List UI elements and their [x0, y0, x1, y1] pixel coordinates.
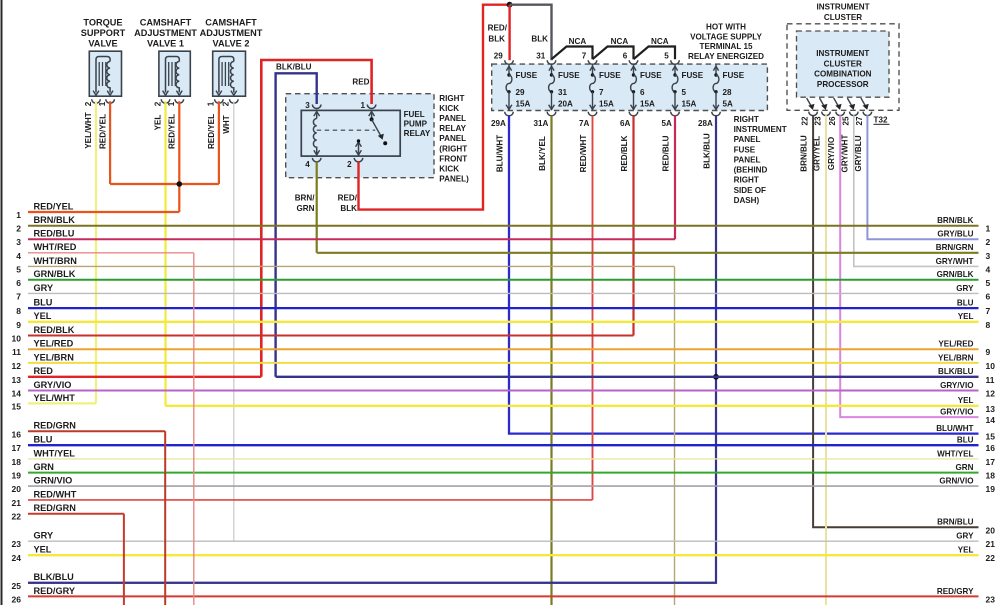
wire GRY/BLU from pin 27 down right to right row 2	[867, 115, 978, 239]
svg-text:YEL/RED: YEL/RED	[34, 339, 74, 349]
wire GRY/YEL from pin 23 down off bottom	[825, 115, 827, 605]
svg-text:6: 6	[16, 278, 21, 288]
svg-text:TERMINAL 15: TERMINAL 15	[700, 42, 753, 51]
wire row L12 YEL/BRN	[28, 362, 979, 364]
svg-text:FRONT: FRONT	[439, 154, 467, 163]
svg-text:YEL: YEL	[34, 545, 52, 555]
svg-text:PROCESSOR: PROCESSOR	[817, 80, 869, 89]
fuse F28 5A	[713, 65, 745, 111]
svg-text:6: 6	[986, 291, 991, 301]
svg-text:22: 22	[801, 116, 810, 126]
svg-text:RED/YEL: RED/YEL	[98, 114, 107, 149]
relay coil with arrows	[314, 111, 320, 116]
wire row L1 RED/YEL	[28, 211, 179, 213]
svg-text:5A: 5A	[661, 119, 672, 128]
svg-text:25: 25	[841, 116, 850, 126]
svg-text:(BEHIND: (BEHIND	[734, 166, 768, 175]
svg-text:1: 1	[16, 210, 21, 220]
svg-text:BRN/: BRN/	[295, 193, 316, 202]
svg-text:13: 13	[12, 375, 22, 385]
svg-text:18: 18	[12, 457, 22, 467]
svg-text:INSTRUMENT: INSTRUMENT	[734, 125, 787, 134]
fuse F31 20A	[549, 65, 581, 111]
svg-text:12: 12	[986, 389, 996, 399]
svg-text:10: 10	[12, 334, 22, 344]
svg-text:15A: 15A	[682, 100, 697, 109]
wire row L6 GRN/BLK	[28, 279, 979, 281]
svg-text:KICK: KICK	[439, 104, 459, 113]
wire row L5 WHT/BRN	[28, 265, 675, 267]
fuse panel bottom pin 28A connector	[712, 112, 721, 116]
svg-text:31: 31	[536, 52, 546, 61]
svg-text:GRN: GRN	[34, 462, 55, 472]
svg-text:BLU: BLU	[957, 436, 974, 445]
relay switch common from pin 1	[371, 111, 373, 119]
wire row L17 BLU	[28, 444, 979, 446]
wire RED/BLK from junction down to fuse 29 pin	[508, 5, 510, 61]
svg-text:NCA: NCA	[611, 37, 629, 46]
svg-text:9: 9	[986, 347, 991, 357]
svg-text:CAMSHAFT: CAMSHAFT	[205, 17, 257, 27]
svg-text:HOT WITH: HOT WITH	[706, 23, 746, 32]
fuse panel bottom pin 6A connector	[629, 112, 638, 116]
svg-text:BLK/BLU: BLK/BLU	[938, 367, 974, 376]
svg-text:GRN: GRN	[956, 463, 974, 472]
svg-text:7: 7	[16, 291, 21, 301]
svg-text:T32: T32	[874, 115, 888, 124]
svg-text:22: 22	[12, 512, 22, 522]
svg-text:26: 26	[828, 116, 837, 126]
svg-text:NCA: NCA	[569, 37, 587, 46]
cluster pin 27 connector	[863, 112, 872, 116]
svg-text:1: 1	[207, 101, 216, 106]
wire row R3 BRN/GRN	[317, 252, 979, 254]
svg-text:BLU: BLU	[957, 299, 974, 308]
cluster pin 26 connector	[836, 112, 845, 116]
svg-text:4: 4	[986, 264, 991, 274]
svg-text:VOLTAGE SUPPLY: VOLTAGE SUPPLY	[690, 32, 762, 41]
svg-text:23: 23	[12, 539, 22, 549]
svg-text:VALVE 1: VALVE 1	[147, 38, 184, 48]
svg-text:3: 3	[16, 237, 21, 247]
svg-text:YEL: YEL	[34, 311, 52, 321]
solenoid symbol	[219, 57, 234, 93]
svg-text:RELAY: RELAY	[439, 124, 466, 133]
svg-text:BLK/BLU: BLK/BLU	[34, 572, 75, 582]
wire row L8 BLU	[28, 307, 979, 309]
wire WHT/BRN continuation down from row 5	[674, 266, 676, 605]
svg-text:RED/YEL: RED/YEL	[207, 114, 216, 149]
svg-text:24: 24	[12, 553, 22, 563]
svg-text:YEL: YEL	[958, 396, 974, 405]
svg-text:CLUSTER: CLUSTER	[824, 13, 862, 22]
svg-text:(RIGHT: (RIGHT	[439, 144, 467, 153]
svg-text:GRY: GRY	[956, 532, 974, 541]
cluster pin 22 connector	[809, 112, 818, 116]
svg-text:7: 7	[599, 88, 604, 97]
valve pin connectors	[161, 99, 170, 103]
svg-text:SUPPORT: SUPPORT	[81, 28, 126, 38]
svg-text:2: 2	[222, 101, 231, 106]
fuse F7 15A	[590, 65, 622, 111]
wire BLK/BLU from fuse 28A down to row 25 with junction at row 11	[28, 115, 716, 582]
svg-text:4: 4	[16, 251, 21, 261]
svg-text:FUSE: FUSE	[558, 71, 580, 80]
svg-text:15A: 15A	[516, 100, 531, 109]
svg-text:BLU/WHT: BLU/WHT	[936, 424, 973, 433]
svg-text:17: 17	[986, 457, 996, 467]
svg-text:FUSE: FUSE	[516, 71, 538, 80]
svg-text:GRY/WHT: GRY/WHT	[936, 257, 974, 266]
fuse panel top pin 7 connector	[588, 60, 597, 64]
svg-text:ADJUSTMENT: ADJUSTMENT	[200, 28, 263, 38]
svg-text:3: 3	[305, 101, 310, 110]
svg-text:6: 6	[623, 52, 628, 61]
wire WHT/RED continuation down from row 4	[193, 253, 195, 605]
svg-text:PANEL): PANEL)	[439, 174, 469, 183]
svg-text:21: 21	[12, 498, 22, 508]
svg-text:16: 16	[12, 429, 22, 439]
component: instrument cluster outer dashed box	[787, 24, 899, 111]
svg-text:20: 20	[12, 484, 22, 494]
wire row L14 GRY/VIO	[28, 390, 979, 392]
fuse panel top pin 31 connector	[547, 60, 556, 64]
svg-text:15: 15	[12, 401, 22, 411]
wire row L16 RED/GRN	[28, 430, 165, 432]
svg-text:22: 22	[986, 553, 996, 563]
svg-text:7: 7	[986, 306, 991, 316]
svg-text:CLUSTER: CLUSTER	[824, 59, 862, 68]
svg-text:2: 2	[986, 237, 991, 247]
svg-text:BRN/BLU: BRN/BLU	[937, 518, 974, 527]
svg-text:16: 16	[986, 443, 996, 453]
NCA jumper 6-5	[634, 47, 676, 60]
svg-text:VALVE 2: VALVE 2	[213, 38, 250, 48]
svg-text:1: 1	[98, 101, 107, 106]
wire BLK/YEL from fuse 31A down off bottom	[550, 115, 552, 605]
svg-text:FUSE: FUSE	[734, 145, 756, 154]
svg-text:NCA: NCA	[651, 37, 669, 46]
svg-text:RED/WHT: RED/WHT	[34, 489, 77, 499]
wire BLK/BLU from relay pin 3 up-left-down to right row 11	[276, 73, 317, 377]
svg-text:2: 2	[347, 160, 352, 169]
svg-text:GRY: GRY	[956, 284, 974, 293]
svg-text:1: 1	[167, 101, 176, 106]
svg-text:GRY: GRY	[34, 283, 54, 293]
svg-text:5A: 5A	[723, 100, 734, 109]
cluster output arrow pin 26	[834, 98, 840, 108]
svg-text:CAMSHAFT: CAMSHAFT	[140, 17, 192, 27]
svg-text:RED/BLU: RED/BLU	[661, 135, 670, 171]
wire RED/BLK from relay pin 2 down-right-up to top junction	[359, 5, 510, 210]
wire RED/WHT from fuse 7A down joining row 21	[592, 115, 594, 500]
relay pin 4 connector	[312, 158, 321, 162]
svg-text:29: 29	[494, 52, 504, 61]
cluster pin 23 connector	[822, 112, 831, 116]
svg-text:KICK: KICK	[439, 164, 459, 173]
wire GRY/WHT from pin 25 down right to right row 4	[854, 115, 979, 266]
relay pin 2 connector	[354, 158, 363, 162]
svg-text:BLK: BLK	[340, 204, 357, 213]
svg-text:2: 2	[84, 101, 93, 106]
solenoid arrows to pins	[216, 91, 222, 96]
svg-text:YEL: YEL	[958, 312, 974, 321]
svg-text:6: 6	[640, 88, 645, 97]
wire row L9 YEL	[28, 321, 979, 323]
wire row R11 BLK/BLU from relay pin3 drop	[276, 376, 979, 378]
svg-text:31A: 31A	[533, 119, 548, 128]
svg-text:28A: 28A	[698, 119, 713, 128]
cluster pin 25 connector	[850, 112, 859, 116]
svg-text:RED/BLK: RED/BLK	[620, 135, 629, 171]
svg-text:15A: 15A	[640, 100, 655, 109]
wire row L10 RED/BLK	[28, 335, 634, 337]
svg-text:BLU/WHT: BLU/WHT	[495, 135, 504, 172]
svg-text:FUSE: FUSE	[682, 71, 704, 80]
svg-text:VALVE: VALVE	[88, 38, 117, 48]
svg-text:BLK: BLK	[531, 34, 548, 43]
wire RED/YEL valve2 pin1 down through junction to row 1	[178, 101, 180, 212]
wire RED/BLK from fuse 6A down joining row 10	[632, 115, 634, 335]
svg-text:DASH): DASH)	[734, 196, 760, 205]
svg-text:26: 26	[12, 594, 22, 604]
svg-text:13: 13	[986, 404, 996, 414]
wire row L18 WHT/YEL	[28, 458, 979, 460]
svg-text:GRY: GRY	[34, 531, 54, 541]
component: fuel pump relay outer dashed panel	[286, 94, 434, 178]
wire row L26 RED/GRY	[28, 595, 979, 597]
solenoid symbol	[166, 57, 180, 93]
svg-text:3: 3	[986, 251, 991, 261]
svg-text:GRY/VIO: GRY/VIO	[34, 380, 72, 390]
cluster output arrow pin 23	[820, 98, 826, 108]
svg-text:RED/GRY: RED/GRY	[34, 586, 76, 596]
svg-text:15: 15	[986, 432, 996, 442]
svg-text:1: 1	[986, 224, 991, 234]
wire BLK from junction to fuse 31 pin	[510, 5, 552, 61]
svg-text:29A: 29A	[491, 119, 506, 128]
svg-text:5: 5	[682, 88, 687, 97]
svg-text:2: 2	[153, 101, 162, 106]
left border edge line	[1, 0, 3, 605]
svg-text:RED/YEL: RED/YEL	[34, 201, 74, 211]
relay coil-switch dashed link	[317, 129, 376, 131]
svg-text:YEL/WHT: YEL/WHT	[34, 393, 76, 403]
svg-text:7: 7	[582, 52, 587, 61]
svg-text:RED/GRY: RED/GRY	[937, 587, 974, 596]
solenoid arrows to pins	[163, 91, 169, 96]
svg-text:PANEL: PANEL	[439, 134, 466, 143]
svg-text:15A: 15A	[599, 100, 614, 109]
wire row L3 RED/BLU	[28, 238, 675, 240]
wire row L13 RED	[28, 376, 261, 378]
wire row L25 BLK/BLU	[28, 582, 716, 584]
svg-text:TORQUE: TORQUE	[83, 17, 122, 27]
svg-text:BLK/BLU: BLK/BLU	[702, 133, 711, 169]
svg-text:RED/GRN: RED/GRN	[34, 421, 77, 431]
svg-text:BLU: BLU	[34, 298, 53, 308]
fuse panel top pin 5 connector	[671, 60, 680, 64]
svg-text:GRN/BLK: GRN/BLK	[937, 270, 974, 279]
svg-text:19: 19	[986, 484, 996, 494]
valve body box	[213, 51, 246, 96]
wire RED/YEL valve3 pin1 down to junction level	[218, 101, 220, 184]
svg-text:20A: 20A	[558, 100, 573, 109]
svg-text:RELAY ENERGIZED: RELAY ENERGIZED	[688, 52, 764, 61]
svg-text:GRN: GRN	[297, 204, 315, 213]
svg-text:SIDE OF: SIDE OF	[734, 186, 766, 195]
fuse panel top pin 29 connector	[505, 60, 514, 64]
wire RED/YEL horizontal junction segment	[110, 183, 219, 185]
svg-text:GRY/YEL: GRY/YEL	[813, 136, 822, 171]
wire row L7 GRY	[28, 292, 979, 294]
svg-text:GRY/VIO: GRY/VIO	[940, 408, 973, 417]
wire WHT valve3 pin2 down to row 23	[233, 101, 235, 541]
svg-text:GRY/VIO: GRY/VIO	[827, 137, 836, 170]
svg-text:RED/WHT: RED/WHT	[579, 135, 588, 173]
wire row L15 YEL/WHT	[28, 402, 96, 404]
component: right instrument panel fuse panel (dashed)	[492, 64, 768, 110]
svg-text:5: 5	[664, 52, 669, 61]
instrument cluster combination processor inner dashed box	[797, 31, 890, 97]
svg-text:RIGHT: RIGHT	[734, 176, 759, 185]
wire row L21 RED/WHT	[28, 499, 593, 501]
wire RED/BLU from fuse 5A down joining row 3	[674, 115, 676, 239]
wire RED/GRN continuation down from row 16	[164, 431, 166, 605]
wire RED/GRN continuation down from row 22	[123, 514, 125, 605]
relay pin 3 connector	[312, 105, 321, 109]
wire row R13 YEL segment	[166, 405, 979, 407]
svg-text:COMBINATION: COMBINATION	[814, 70, 872, 79]
fuse F29 15A	[506, 65, 538, 111]
svg-text:11: 11	[986, 375, 995, 385]
svg-text:18: 18	[986, 471, 996, 481]
svg-text:GRN/VIO: GRN/VIO	[34, 476, 73, 486]
svg-text:31: 31	[558, 88, 568, 97]
svg-text:5: 5	[16, 264, 21, 274]
svg-text:YEL/BRN: YEL/BRN	[938, 353, 974, 362]
svg-text:BRN/BLK: BRN/BLK	[34, 215, 76, 225]
svg-text:YEL: YEL	[154, 115, 163, 131]
svg-text:RIGHT: RIGHT	[439, 94, 464, 103]
svg-text:17: 17	[12, 443, 22, 453]
solenoid arrows to pins	[93, 91, 99, 96]
svg-text:25: 25	[12, 581, 22, 591]
svg-text:WHT/RED: WHT/RED	[34, 242, 77, 252]
svg-text:PANEL: PANEL	[439, 114, 466, 123]
wire YEL/WHT from valve pin 2 down to row 15	[95, 101, 97, 403]
wire RED/YEL valve1 pin1 down to junction level	[109, 101, 111, 184]
svg-text:GRY/BLU: GRY/BLU	[854, 135, 863, 171]
svg-text:GRN/VIO: GRN/VIO	[939, 477, 973, 486]
svg-text:BLU: BLU	[34, 435, 53, 445]
relay pin 2 post with arrows	[358, 142, 360, 156]
relay switch fixed contact dot	[383, 141, 387, 145]
NCA jumper 31-7	[552, 47, 593, 60]
svg-text:11: 11	[12, 347, 21, 357]
fuse panel bottom pin 29A connector	[505, 112, 514, 116]
junction dot RED/YEL	[177, 181, 183, 187]
svg-text:ADJUSTMENT: ADJUSTMENT	[134, 28, 197, 38]
svg-text:29: 29	[516, 88, 526, 97]
svg-text:RED/BLK: RED/BLK	[34, 325, 75, 335]
svg-text:BRN/BLU: BRN/BLU	[800, 135, 809, 172]
svg-text:10: 10	[986, 361, 996, 371]
svg-text:20: 20	[986, 525, 996, 535]
fuse F6 15A	[631, 65, 663, 111]
svg-text:8: 8	[986, 320, 991, 330]
svg-text:FUSE: FUSE	[640, 71, 662, 80]
svg-text:YEL: YEL	[958, 546, 974, 555]
svg-text:23: 23	[814, 116, 823, 126]
svg-text:WHT: WHT	[222, 115, 231, 133]
svg-text:FUSE: FUSE	[599, 71, 621, 80]
svg-text:23: 23	[986, 594, 996, 604]
svg-text:BRN/GRN: BRN/GRN	[936, 243, 974, 252]
svg-text:14: 14	[12, 389, 22, 399]
svg-text:PUMP: PUMP	[404, 120, 428, 129]
top junction dot	[507, 2, 513, 8]
svg-text:RELAY: RELAY	[404, 129, 431, 138]
svg-text:WHT/YEL: WHT/YEL	[34, 448, 76, 458]
svg-text:14: 14	[986, 415, 996, 425]
svg-text:4: 4	[305, 160, 310, 169]
junction dot BLK/BLU at right row 11	[713, 374, 719, 380]
svg-text:1: 1	[360, 101, 365, 110]
valve pin connectors	[215, 99, 224, 103]
wire RED from relay pin 1 up-left-down to row 13	[261, 60, 371, 377]
svg-text:7A: 7A	[579, 119, 590, 128]
svg-text:WHT/YEL: WHT/YEL	[937, 449, 973, 458]
svg-text:6A: 6A	[620, 119, 631, 128]
svg-text:19: 19	[12, 471, 22, 481]
svg-text:INSTRUMENT: INSTRUMENT	[816, 49, 869, 58]
svg-text:BLK/YEL: BLK/YEL	[538, 136, 547, 171]
svg-text:12: 12	[12, 361, 22, 371]
svg-text:21: 21	[986, 539, 996, 549]
cluster output arrow pin 25	[847, 98, 853, 108]
svg-text:5: 5	[986, 278, 991, 288]
svg-text:RED/YEL: RED/YEL	[168, 114, 177, 149]
svg-text:BLK: BLK	[488, 34, 505, 43]
svg-text:RED/: RED/	[338, 193, 358, 202]
svg-text:8: 8	[16, 306, 21, 316]
svg-text:FUSE: FUSE	[723, 71, 745, 80]
cluster output arrow pin 27	[861, 98, 867, 108]
svg-text:RIGHT: RIGHT	[734, 115, 759, 124]
svg-text:28: 28	[723, 88, 733, 97]
wire BRN/BLU from pin 22 down right to right row 20	[813, 115, 978, 527]
wire row L4 WHT/RED	[28, 252, 194, 254]
svg-text:WHT/BRN: WHT/BRN	[34, 256, 78, 266]
fuse panel bottom pin 31A connector	[547, 112, 556, 116]
relay body box	[301, 110, 400, 156]
svg-text:PANEL: PANEL	[734, 155, 761, 164]
svg-text:INSTRUMENT: INSTRUMENT	[816, 3, 869, 12]
solenoid symbol	[96, 57, 110, 93]
wire row L20 GRN/VIO	[28, 485, 979, 487]
relay switch movable contact arm	[372, 119, 382, 137]
svg-text:GRY/WHT: GRY/WHT	[841, 134, 850, 172]
svg-text:GRN/BLK: GRN/BLK	[34, 269, 76, 279]
valve body box	[159, 51, 190, 96]
fuse panel top pin 6 connector	[629, 60, 638, 64]
fuse F5 15A	[672, 65, 704, 111]
wire BRN/GRN from relay pin 4 down to right row 3	[316, 162, 318, 253]
fuse panel bottom pin 5A connector	[671, 112, 680, 116]
wire row L24 YEL	[28, 554, 979, 556]
svg-text:GRY/BLU: GRY/BLU	[937, 230, 973, 239]
